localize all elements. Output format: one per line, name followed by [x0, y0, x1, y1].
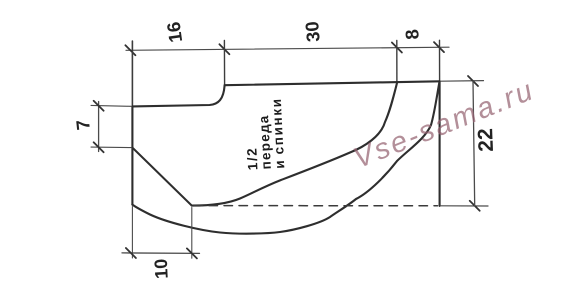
extension line x=439.6 above edge — [439, 40, 441, 81]
hem curve arc2 — [132, 82, 439, 234]
extension line x=224.5 — [223, 41, 225, 86]
extension line x=132.4 above shape — [131, 41, 133, 106]
top dimension line — [126, 47, 449, 50]
svg-text:30: 30 — [301, 20, 324, 42]
svg-text:16: 16 — [163, 21, 187, 44]
svg-text:и спинки: и спинки — [269, 97, 288, 169]
tick top of 7-dim — [94, 101, 104, 111]
svg-text:7: 7 — [72, 119, 94, 131]
tick top x=439 — [434, 42, 444, 52]
7 dimension line — [98, 102, 100, 152]
tick bottom of 7-dim — [94, 142, 104, 152]
extension of dashed line to 22-dim — [441, 205, 488, 207]
left edge of pattern — [131, 106, 133, 204]
svg-text:Vse-sama.ru: Vse-sama.ru — [349, 74, 539, 175]
dashed construction line — [194, 205, 438, 207]
svg-text:8: 8 — [401, 28, 423, 40]
10 dimension line — [122, 252, 200, 255]
22 dimension line — [473, 81, 475, 206]
10-dim left extension — [131, 207, 133, 259]
tick top x=224 — [219, 44, 229, 54]
top edge extension to 22-dim — [441, 80, 484, 83]
tick top x=130 — [125, 45, 135, 55]
diagonal dart line — [132, 148, 191, 206]
tick right of 10-dim — [187, 248, 197, 258]
svg-text:10: 10 — [151, 258, 172, 279]
label 1/2 pereda i spinki — [242, 97, 288, 171]
10-dim right extension — [191, 208, 193, 259]
svg-text:22: 22 — [474, 128, 498, 152]
armhole curve arc1 — [192, 83, 397, 205]
tick top of 22-dim — [468, 76, 478, 86]
tick bottom of 22-dim — [470, 201, 480, 211]
top edge — [225, 81, 440, 85]
right edge — [439, 81, 441, 206]
extension line x=397 — [396, 41, 398, 84]
7-dim lower extension — [91, 146, 131, 149]
tick left of 10-dim — [126, 248, 136, 258]
7-dim upper extension — [91, 104, 131, 107]
top-left shelf edge with round step — [132, 85, 224, 106]
tick top x=397 — [392, 43, 402, 53]
